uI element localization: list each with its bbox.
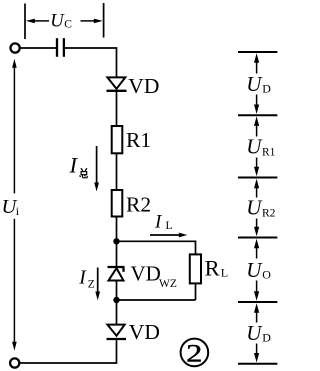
svg-text:U: U — [246, 321, 263, 345]
U_R1 arrows seg2 — [254, 116, 259, 176]
tick 1 — [238, 51, 277, 53]
resistor R1 — [112, 126, 123, 153]
U_D arrows seg5 — [254, 303, 259, 362]
current I_total arrow — [96, 146, 98, 184]
capacitor C plate right — [63, 38, 65, 57]
zener diode VD_WZ — [108, 266, 125, 268]
svg-text:L: L — [166, 220, 173, 232]
svg-text:VD: VD — [131, 261, 161, 285]
svg-text:VD: VD — [129, 320, 160, 344]
rail top to R_L — [117, 241, 196, 254]
svg-text:R2: R2 — [262, 207, 276, 219]
wire capacitor to top-right corner — [65, 48, 117, 78]
bottom rail — [117, 299, 196, 301]
U_R2 arrows seg3 — [254, 179, 259, 237]
wire R1 to R2 — [116, 153, 118, 190]
tick 3 — [238, 177, 277, 179]
svg-text:WZ: WZ — [159, 278, 177, 290]
svg-text:U: U — [246, 258, 263, 282]
svg-text:U: U — [246, 72, 263, 96]
current I_Z arrow — [97, 268, 99, 294]
svg-text:U: U — [50, 12, 65, 32]
svg-text:2: 2 — [186, 340, 202, 368]
tick 4 — [238, 237, 277, 239]
current I_L arrow — [150, 234, 181, 236]
U_i dimension arrow line (left) — [13, 66, 15, 193]
U_C left arrow — [34, 20, 49, 22]
svg-text:L: L — [221, 266, 228, 280]
svg-text:C: C — [64, 19, 72, 31]
dimension tick right of U_C — [103, 3, 105, 38]
tick 5 — [238, 301, 277, 303]
junction node top — [113, 238, 119, 244]
tick 2 — [238, 114, 277, 116]
wire zener to bottom diode — [116, 281, 118, 325]
circled 2 figure number — [181, 339, 209, 367]
svg-text:VD: VD — [128, 74, 159, 98]
wire R_L to bottom rail — [195, 283, 197, 300]
wire top-left to capacitor — [20, 47, 56, 49]
dimension tick left of U_C — [24, 4, 26, 40]
junction node bottom — [113, 297, 119, 303]
svg-text:R1: R1 — [126, 128, 151, 152]
svg-text:Z: Z — [88, 279, 95, 291]
svg-text:D: D — [262, 331, 271, 345]
U_D arrows seg1 — [254, 53, 259, 114]
resistor R_L — [190, 254, 201, 283]
wire diode to R1 — [116, 92, 118, 126]
svg-text:R1: R1 — [262, 146, 276, 158]
terminal top-left — [11, 43, 20, 52]
hanzi zong (drawn) — [80, 168, 88, 178]
tick 6 — [238, 363, 277, 365]
svg-text:U: U — [246, 196, 263, 220]
svg-text:R: R — [205, 255, 220, 280]
diode VD top — [107, 77, 125, 88]
diode VD bottom — [107, 325, 124, 336]
terminal bottom-left — [10, 358, 19, 367]
resistor R2 — [112, 190, 123, 217]
wire R2 to zener — [116, 217, 118, 268]
capacitor C plate left — [56, 38, 58, 57]
U_C right arrow — [81, 20, 95, 22]
svg-text:D: D — [262, 82, 271, 96]
svg-text:U: U — [246, 135, 263, 159]
svg-text:R2: R2 — [126, 192, 151, 216]
svg-text:O: O — [262, 268, 271, 282]
wire bottom diode to bottom rail — [20, 340, 117, 363]
U_O arrows seg4 — [254, 239, 259, 301]
